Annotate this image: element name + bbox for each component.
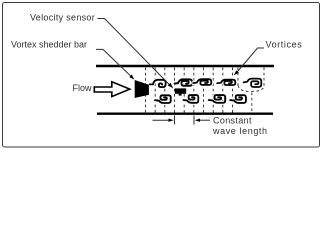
dashed balloon around vortex T5 — [238, 68, 264, 92]
dashed cell line 1 — [145, 68, 147, 113]
vortex B1 — [155, 95, 171, 103]
svg-text:Vortex shedder bar: Vortex shedder bar — [11, 40, 87, 50]
dimension tick right — [193, 116, 195, 125]
dashed cell line 3 — [164, 68, 166, 113]
dashed cell line 4 — [174, 68, 176, 113]
vortex B2 — [183, 95, 198, 103]
svg-text:Vortices: Vortices — [266, 40, 303, 50]
svg-text:Constant: Constant — [213, 116, 252, 126]
vortex B4 — [230, 95, 246, 103]
dashed cell line 7 — [203, 68, 205, 113]
dimension arrow right — [195, 119, 210, 122]
label: Vortices — [266, 40, 303, 50]
label: Vortex shedder bar — [11, 40, 87, 50]
dashed cell line 10 — [232, 68, 234, 113]
vortex T1 — [150, 80, 166, 87]
vortex T2 — [175, 79, 193, 85]
svg-text:Flow: Flow — [73, 83, 93, 93]
vortex B3 — [209, 95, 225, 103]
velocity sensor element — [175, 88, 186, 95]
svg-text:Velocity sensor: Velocity sensor — [30, 13, 95, 23]
dashed cell line 5 — [183, 68, 185, 113]
label: Constant wave length — [212, 116, 268, 137]
svg-text:wave length: wave length — [212, 126, 268, 136]
dashed cell line 11 lower band — [251, 93, 253, 113]
dashed cell line 8 — [212, 68, 214, 113]
pipe wall bottom — [97, 112, 273, 114]
vortex T4 — [217, 80, 235, 85]
Flow label — [73, 83, 93, 93]
dashed cell line 9 — [222, 68, 224, 113]
pipe wall top — [96, 65, 274, 67]
dimension arrow left — [153, 119, 174, 122]
dimension tick left — [174, 116, 176, 125]
label: Velocity sensor — [30, 13, 95, 23]
dashed cell line 6 — [193, 68, 195, 113]
leader line to velocity sensor — [98, 19, 174, 89]
dashed cell line 2 — [154, 68, 156, 113]
vortex shedder bar — [135, 80, 149, 98]
leader line to vortices — [234, 48, 264, 75]
vortex T5 — [244, 79, 262, 87]
flow block arrow — [94, 82, 130, 97]
leader line to shedder bar — [96, 49, 134, 79]
vortex T3 — [193, 79, 211, 85]
